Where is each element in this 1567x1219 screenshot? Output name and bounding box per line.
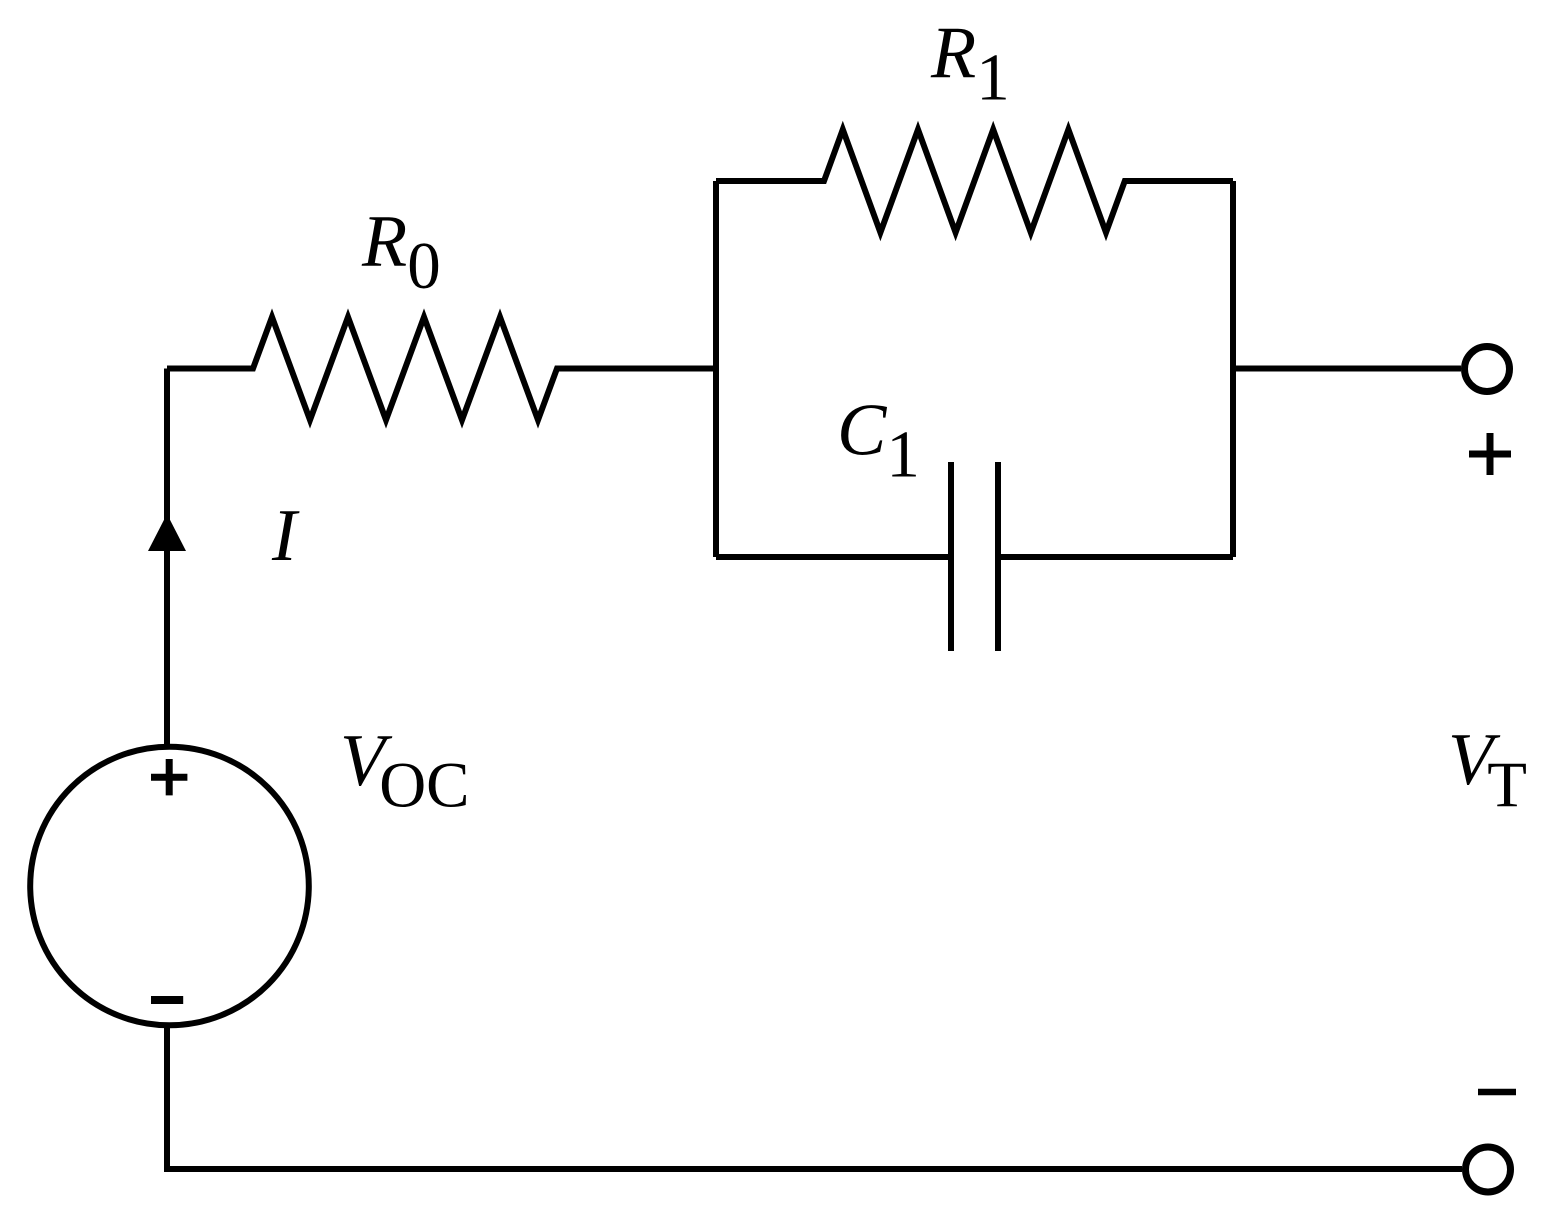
svg-text:R0: R0 (361, 201, 441, 303)
svg-text:R1: R1 (930, 13, 1010, 115)
svg-text:VT: VT (1448, 719, 1527, 821)
svg-text:C1: C1 (837, 390, 920, 492)
svg-text:VOC: VOC (340, 720, 470, 822)
svg-text:I: I (271, 495, 300, 577)
